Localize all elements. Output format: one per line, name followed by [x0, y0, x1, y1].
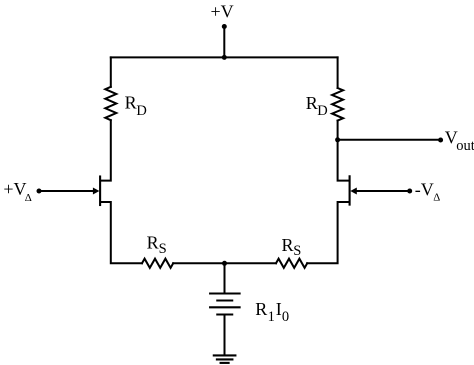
svg-text:+V: +V	[211, 1, 234, 21]
resistor RS right	[276, 259, 307, 268]
resistor RS left	[142, 259, 173, 268]
svg-text:R: R	[306, 93, 318, 113]
wire right gate input	[357, 190, 410, 192]
svg-text:S: S	[159, 241, 167, 257]
transistor Q2 channel bar	[349, 176, 351, 204]
svg-text:1: 1	[268, 309, 275, 325]
node +V terminal dot	[222, 24, 227, 29]
transistor Q1 gate arrowhead	[93, 188, 100, 195]
svg-text:0: 0	[282, 309, 289, 325]
wire left drain upper	[110, 57, 112, 86]
svg-text:R: R	[125, 93, 137, 113]
wire right drain upper	[337, 121, 339, 140]
terminal dot +Vdelta	[37, 189, 42, 194]
terminal dot Vout	[438, 138, 443, 143]
ground bar 1	[214, 354, 236, 356]
ground bar 3	[221, 362, 229, 364]
wire Vout tap	[338, 139, 441, 141]
transistor Q2 gate arrowhead	[350, 188, 357, 195]
svg-text:Δ: Δ	[433, 192, 440, 204]
battery B1 plate long bottom	[210, 306, 240, 308]
wire left gate input	[40, 190, 94, 192]
battery B1 plate short upper	[217, 299, 232, 301]
terminal dot -Vdelta	[407, 189, 412, 194]
resistor RD left	[105, 87, 116, 120]
battery B1 plate long top	[210, 292, 240, 294]
wire right drain lower	[338, 140, 349, 181]
svg-text:I: I	[276, 299, 282, 319]
svg-text:out: out	[456, 138, 474, 154]
svg-text:R: R	[255, 299, 267, 319]
wire RS left to junction	[173, 262, 224, 264]
svg-text:+V: +V	[3, 179, 26, 199]
battery B1 plate short lower	[217, 313, 232, 315]
svg-text:S: S	[293, 243, 301, 259]
svg-text:-V: -V	[415, 180, 434, 200]
svg-text:R: R	[147, 233, 159, 253]
wire battery top lead	[224, 263, 226, 293]
junction dot Vout	[335, 137, 340, 142]
wire right source	[307, 202, 349, 263]
svg-text:R: R	[282, 235, 294, 255]
wire top bus	[111, 56, 338, 58]
wire left drain lower	[101, 120, 111, 180]
wire bus right corner down	[337, 57, 339, 88]
junction dot top bus	[222, 55, 227, 60]
svg-text:D: D	[317, 103, 327, 119]
svg-text:D: D	[136, 103, 146, 119]
transistor Q1 channel bar	[99, 177, 101, 206]
wire left source	[101, 202, 142, 263]
wire junction to RS right	[225, 262, 277, 264]
wire battery to ground	[224, 315, 226, 356]
wire +V stub	[223, 27, 225, 58]
svg-text:Δ: Δ	[25, 192, 32, 204]
resistor RD right	[332, 88, 343, 121]
junction dot bottom rail	[222, 261, 227, 266]
ground bar 2	[217, 358, 233, 360]
